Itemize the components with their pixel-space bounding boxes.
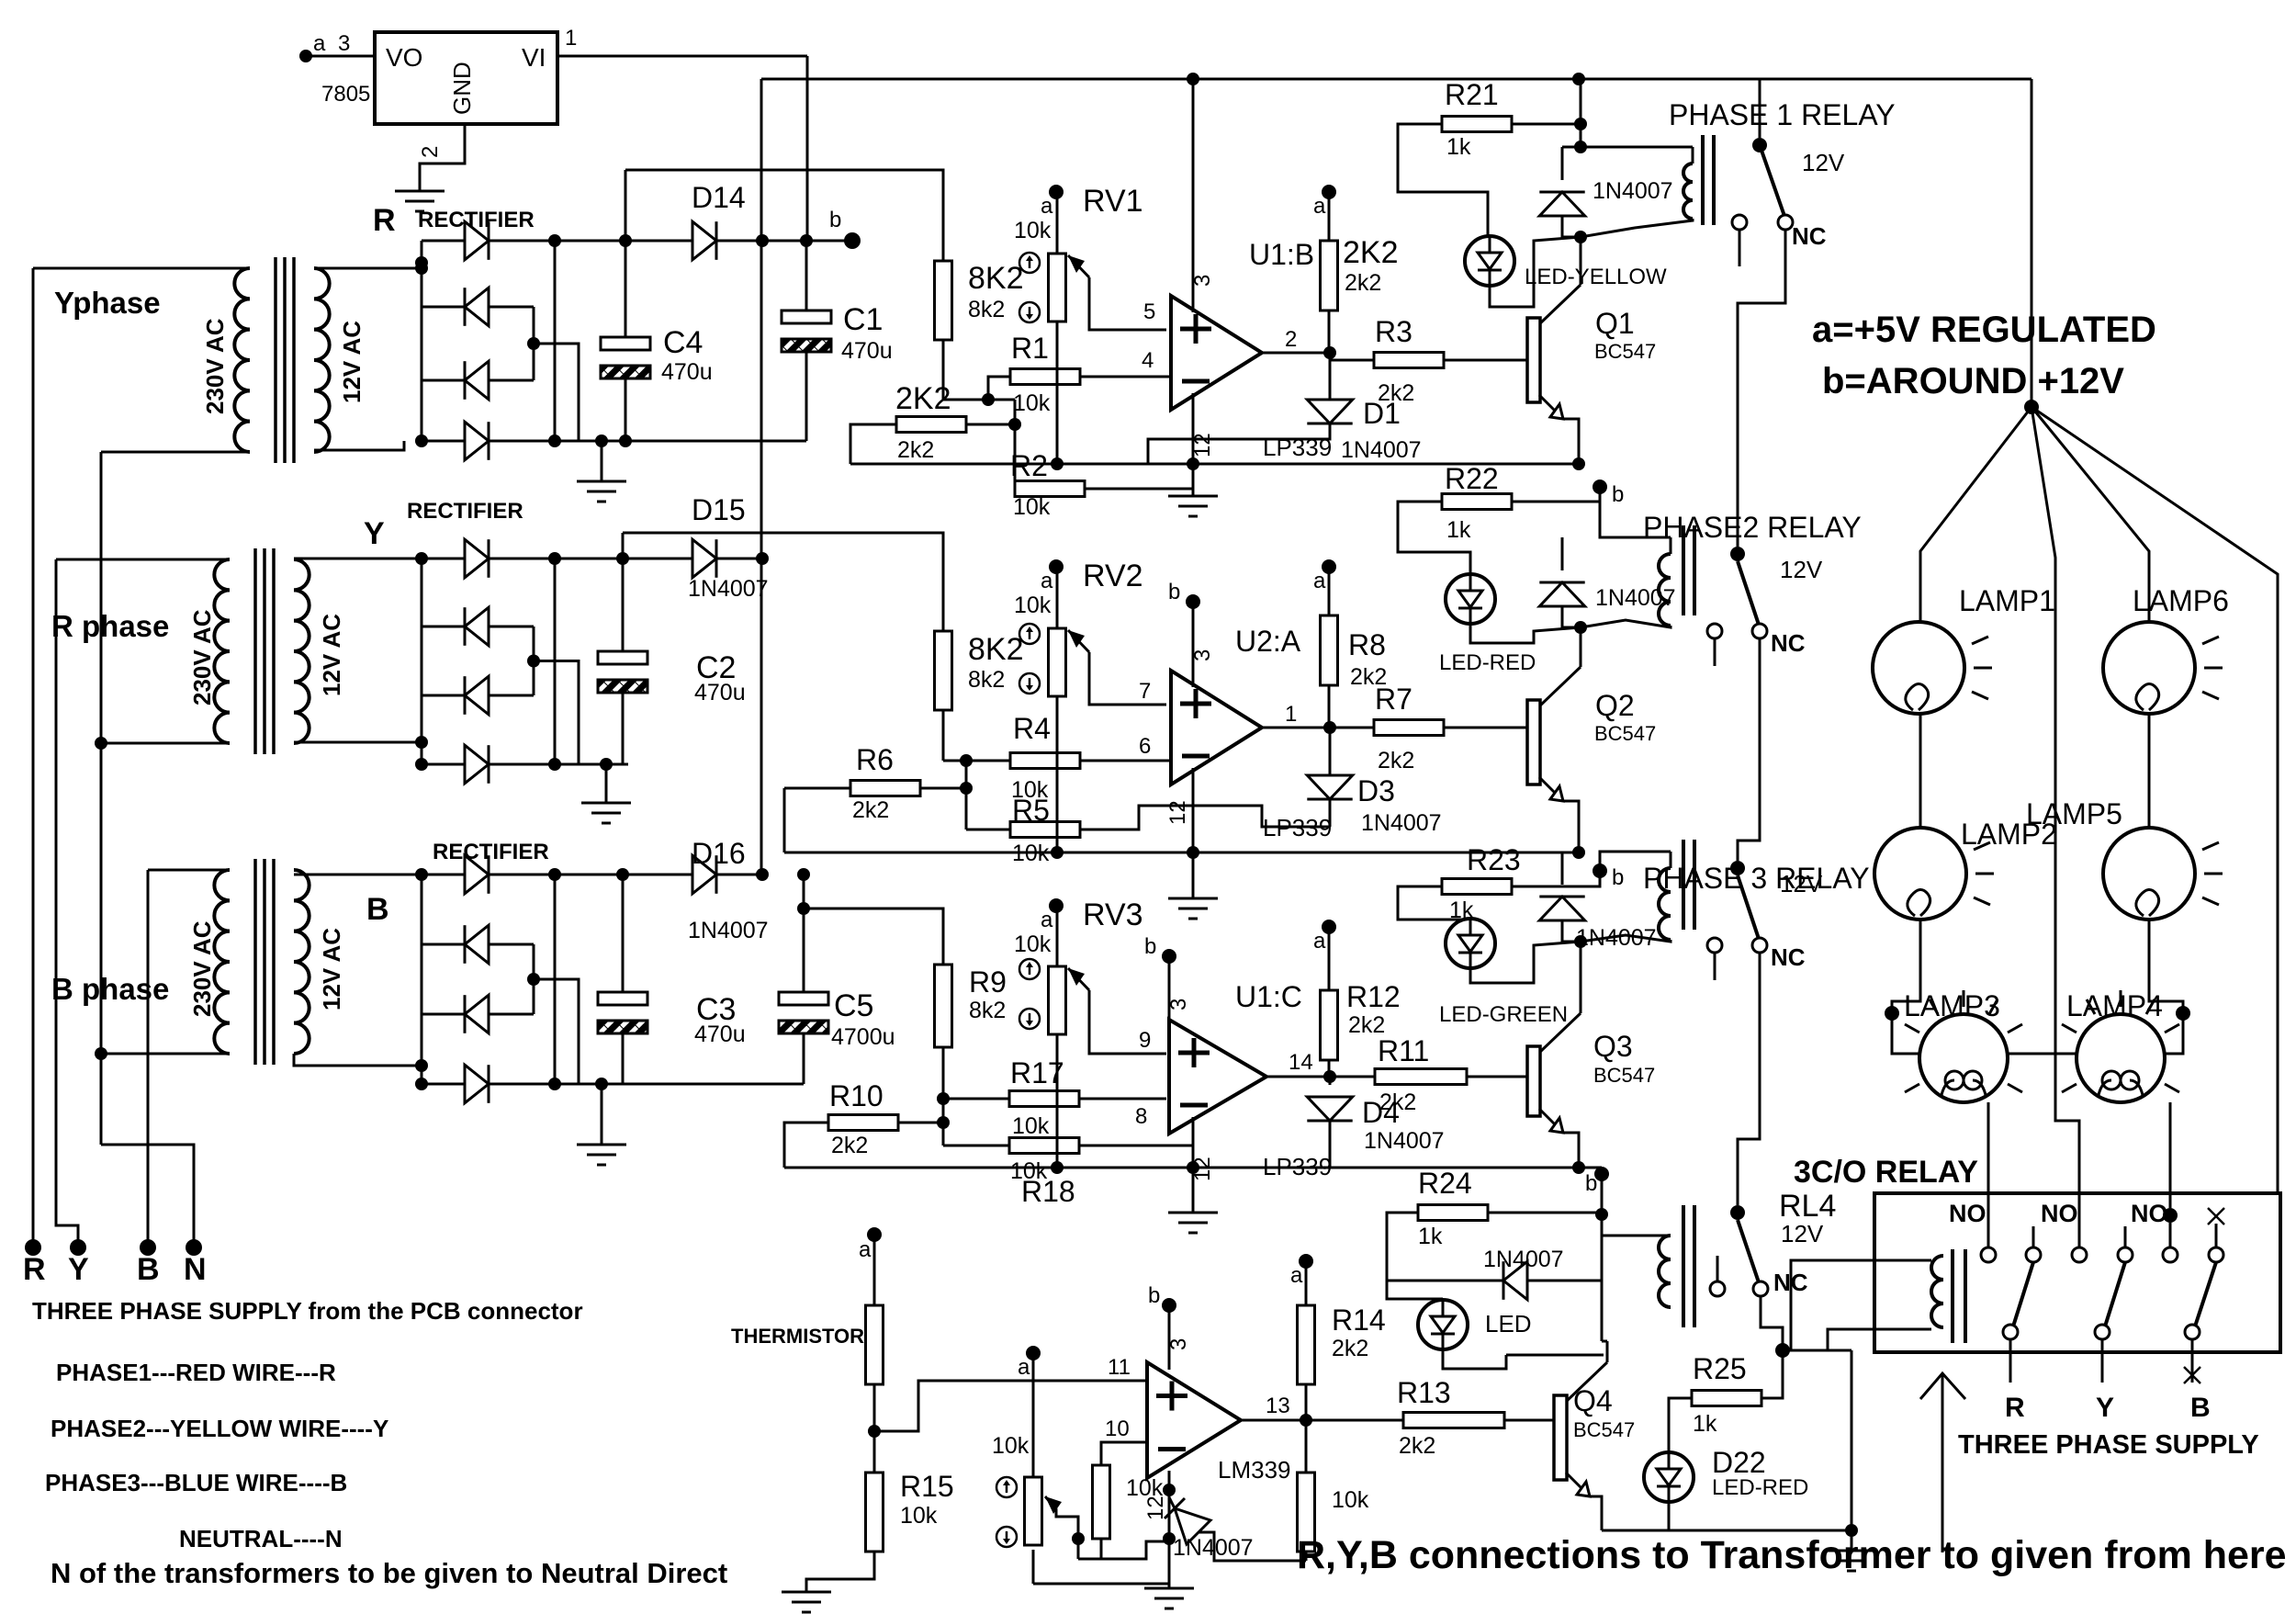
svg-text:BC547: BC547 [1573, 1418, 1635, 1441]
svg-text:R13: R13 [1397, 1376, 1451, 1409]
svg-text:U2:A: U2:A [1235, 625, 1301, 658]
svg-text:LED-RED: LED-RED [1712, 1475, 1808, 1500]
svg-text:10k: 10k [1013, 494, 1051, 520]
svg-text:Q4: Q4 [1573, 1384, 1613, 1417]
svg-text:C1: C1 [843, 302, 883, 337]
svg-text:470u: 470u [841, 338, 893, 364]
svg-text:PHASE 1 RELAY: PHASE 1 RELAY [1669, 98, 1896, 131]
svg-text:LAMP6: LAMP6 [2133, 584, 2229, 617]
svg-text:Q1: Q1 [1595, 307, 1635, 340]
svg-text:RV1: RV1 [1083, 184, 1143, 219]
svg-text:R4: R4 [1013, 712, 1051, 745]
svg-text:R15: R15 [900, 1470, 954, 1503]
svg-text:PHASE2 RELAY: PHASE2 RELAY [1643, 511, 1862, 544]
svg-text:5: 5 [1143, 299, 1155, 324]
svg-text:R11: R11 [1378, 1034, 1429, 1067]
svg-text:14: 14 [1289, 1050, 1313, 1075]
svg-text:12V AC: 12V AC [318, 614, 345, 696]
svg-text:230V AC: 230V AC [201, 318, 229, 414]
svg-text:12V: 12V [1780, 870, 1823, 897]
svg-text:R21: R21 [1445, 78, 1499, 111]
svg-text:D22: D22 [1712, 1446, 1766, 1479]
svg-text:8k2: 8k2 [968, 297, 1005, 322]
svg-text:13: 13 [1266, 1394, 1290, 1418]
svg-text:Y: Y [68, 1252, 89, 1287]
svg-text:LM339: LM339 [1218, 1456, 1291, 1484]
svg-text:C5: C5 [834, 988, 873, 1023]
svg-text:2k2: 2k2 [1399, 1433, 1435, 1459]
svg-text:4: 4 [1142, 348, 1154, 373]
svg-text:LED-GREEN: LED-GREEN [1439, 1002, 1568, 1027]
svg-text:D14: D14 [692, 181, 746, 214]
svg-text:12: 12 [1165, 800, 1190, 825]
svg-text:3: 3 [1166, 1338, 1191, 1350]
svg-text:R12: R12 [1346, 980, 1401, 1013]
svg-text:2k2: 2k2 [852, 797, 889, 823]
svg-text:R3: R3 [1375, 315, 1412, 348]
svg-text:NC: NC [1771, 629, 1806, 657]
svg-text:8K2: 8K2 [968, 261, 1024, 296]
svg-text:RV3: RV3 [1083, 897, 1143, 932]
svg-text:RECTIFIER: RECTIFIER [433, 840, 549, 864]
svg-text:a: a [859, 1237, 872, 1262]
svg-text:PHASE3---BLUE WIRE----B: PHASE3---BLUE WIRE----B [45, 1469, 347, 1496]
svg-text:THREE PHASE SUPPLY from the PC: THREE PHASE SUPPLY from the PCB connecto… [32, 1297, 583, 1325]
svg-text:2k2: 2k2 [1378, 748, 1414, 773]
svg-text:3: 3 [1166, 999, 1191, 1010]
svg-text:b: b [1168, 580, 1180, 604]
svg-text:b: b [829, 208, 841, 232]
svg-text:R phase: R phase [51, 609, 169, 643]
svg-text:a=+5V REGULATED: a=+5V REGULATED [1812, 310, 2156, 350]
svg-text:8K2: 8K2 [968, 632, 1024, 667]
svg-text:R2: R2 [1010, 449, 1048, 482]
svg-text:2k2: 2k2 [1379, 1089, 1416, 1115]
svg-text:1N4007: 1N4007 [1361, 810, 1442, 836]
svg-text:12V: 12V [1780, 556, 1823, 583]
svg-text:D15: D15 [692, 493, 746, 526]
svg-text:R1: R1 [1011, 332, 1049, 365]
svg-text:U1:B: U1:B [1249, 238, 1314, 271]
svg-text:1k: 1k [1446, 517, 1471, 543]
svg-text:10k: 10k [1012, 1113, 1050, 1139]
svg-text:R22: R22 [1445, 462, 1499, 495]
svg-text:RECTIFIER: RECTIFIER [407, 499, 523, 524]
svg-text:a: a [1041, 908, 1053, 932]
svg-text:2K2: 2K2 [1343, 235, 1399, 270]
svg-text:1k: 1k [1446, 134, 1471, 160]
svg-text:7805: 7805 [321, 82, 370, 107]
svg-text:NC: NC [1771, 943, 1806, 971]
svg-text:10k: 10k [1014, 931, 1052, 957]
svg-text:LED-YELLOW: LED-YELLOW [1525, 265, 1667, 289]
svg-text:R18: R18 [1021, 1175, 1075, 1208]
svg-text:PHASE1---RED WIRE---R: PHASE1---RED WIRE---R [56, 1359, 336, 1386]
svg-text:LAMP3: LAMP3 [1904, 989, 2000, 1022]
svg-text:Yphase: Yphase [54, 286, 161, 320]
svg-text:230V AC: 230V AC [188, 609, 216, 705]
svg-text:10k: 10k [900, 1503, 938, 1529]
svg-text:4700u: 4700u [831, 1024, 895, 1050]
svg-text:6: 6 [1139, 734, 1151, 759]
svg-text:10k: 10k [1332, 1487, 1369, 1513]
svg-text:PHASE2---YELLOW WIRE----Y: PHASE2---YELLOW WIRE----Y [51, 1415, 388, 1442]
svg-text:2K2: 2K2 [895, 381, 951, 416]
svg-text:R: R [23, 1252, 46, 1287]
svg-text:12V: 12V [1781, 1220, 1824, 1247]
svg-text:R6: R6 [856, 743, 894, 776]
svg-text:B: B [2190, 1393, 2211, 1423]
svg-text:N of the transformers to be gi: N of the transformers to be given to Neu… [51, 1557, 727, 1589]
svg-text:230V AC: 230V AC [188, 920, 216, 1017]
svg-text:BC547: BC547 [1594, 340, 1656, 363]
svg-text:1: 1 [565, 26, 577, 51]
svg-text:VO: VO [386, 43, 422, 72]
svg-text:NO: NO [1949, 1200, 1986, 1227]
svg-text:R10: R10 [829, 1079, 884, 1112]
svg-text:3: 3 [1190, 649, 1215, 661]
svg-text:12V AC: 12V AC [338, 321, 366, 403]
svg-text:2k2: 2k2 [1345, 270, 1381, 296]
svg-text:470u: 470u [694, 680, 746, 705]
svg-text:R25: R25 [1693, 1352, 1747, 1385]
svg-text:RL4: RL4 [1779, 1189, 1836, 1224]
svg-text:1k: 1k [1418, 1224, 1443, 1249]
svg-text:b: b [1144, 934, 1156, 959]
svg-text:1N4007: 1N4007 [1173, 1535, 1254, 1561]
svg-text:U1:C: U1:C [1235, 980, 1302, 1013]
svg-text:R,Y,B connections to Transform: R,Y,B connections to Transformer to give… [1297, 1533, 2287, 1577]
svg-text:10k: 10k [1014, 218, 1052, 243]
svg-text:LED-RED: LED-RED [1439, 650, 1536, 675]
svg-text:LAMP4: LAMP4 [2066, 989, 2163, 1022]
svg-text:R14: R14 [1332, 1304, 1386, 1337]
svg-text:10k: 10k [1013, 390, 1051, 416]
svg-text:470u: 470u [694, 1021, 746, 1047]
svg-text:Y: Y [364, 516, 385, 551]
svg-text:1N4007: 1N4007 [688, 918, 769, 943]
svg-text:1: 1 [1285, 702, 1297, 727]
svg-text:R: R [2005, 1393, 2025, 1423]
svg-text:3: 3 [1190, 275, 1215, 287]
svg-text:8k2: 8k2 [968, 667, 1005, 693]
svg-text:LAMP5: LAMP5 [2026, 797, 2122, 830]
svg-text:Q2: Q2 [1595, 689, 1635, 722]
svg-text:1N4007: 1N4007 [1341, 437, 1422, 463]
svg-text:BC547: BC547 [1594, 722, 1656, 745]
svg-text:a: a [1313, 929, 1326, 954]
svg-text:R17: R17 [1010, 1056, 1064, 1089]
svg-text:VI: VI [522, 43, 546, 72]
svg-text:b: b [1612, 482, 1624, 507]
svg-text:B phase: B phase [51, 972, 169, 1006]
svg-text:NO: NO [2131, 1200, 2168, 1227]
svg-text:Y: Y [2096, 1393, 2114, 1423]
svg-text:C4: C4 [663, 325, 703, 360]
svg-text:a: a [1313, 569, 1326, 593]
svg-text:a: a [1290, 1263, 1303, 1288]
svg-text:GND: GND [448, 62, 476, 115]
svg-text:3: 3 [338, 31, 350, 56]
svg-text:2k2: 2k2 [831, 1133, 868, 1158]
svg-text:Q3: Q3 [1593, 1030, 1633, 1063]
svg-text:1k: 1k [1693, 1411, 1717, 1437]
svg-text:10k: 10k [992, 1433, 1030, 1459]
svg-text:12V AC: 12V AC [318, 928, 345, 1010]
svg-text:11: 11 [1108, 1355, 1131, 1380]
svg-text:R: R [373, 203, 396, 238]
svg-text:1N4007: 1N4007 [1364, 1128, 1445, 1154]
svg-text:1N4007: 1N4007 [688, 576, 769, 602]
svg-text:7: 7 [1139, 679, 1151, 704]
svg-text:a: a [1041, 194, 1053, 219]
svg-text:1N4007: 1N4007 [1483, 1247, 1564, 1272]
svg-text:NEUTRAL----N: NEUTRAL----N [179, 1525, 343, 1552]
svg-text:a: a [1041, 569, 1053, 593]
svg-text:b: b [1612, 865, 1624, 890]
svg-text:RV2: RV2 [1083, 559, 1143, 593]
svg-text:1N4007: 1N4007 [1593, 178, 1673, 204]
svg-text:R8: R8 [1348, 628, 1386, 661]
svg-text:R7: R7 [1375, 683, 1412, 716]
svg-text:PHASE 3 RELAY: PHASE 3 RELAY [1643, 862, 1870, 895]
svg-text:a: a [1313, 194, 1326, 219]
svg-text:BC547: BC547 [1593, 1064, 1655, 1087]
svg-text:D3: D3 [1357, 774, 1395, 807]
svg-text:b: b [1585, 1171, 1597, 1196]
svg-text:2: 2 [1285, 327, 1297, 352]
svg-text:a: a [313, 31, 326, 56]
svg-text:D16: D16 [692, 837, 746, 870]
svg-text:b=AROUND +12V: b=AROUND +12V [1822, 361, 2124, 401]
svg-text:R24: R24 [1418, 1167, 1472, 1200]
svg-text:LAMP1: LAMP1 [1959, 584, 2055, 617]
svg-text:3C/O RELAY: 3C/O RELAY [1794, 1155, 1978, 1190]
svg-text:10: 10 [1105, 1416, 1130, 1441]
svg-text:THREE PHASE SUPPLY: THREE PHASE SUPPLY [1958, 1430, 2259, 1460]
svg-text:b: b [1148, 1283, 1160, 1308]
svg-text:2k2: 2k2 [897, 437, 934, 463]
svg-text:9: 9 [1139, 1028, 1151, 1053]
svg-text:a: a [1018, 1355, 1030, 1380]
svg-text:THERMISTOR: THERMISTOR [731, 1325, 864, 1348]
svg-text:470u: 470u [661, 359, 713, 385]
svg-text:N: N [184, 1252, 207, 1287]
svg-text:LED: LED [1485, 1310, 1532, 1337]
svg-text:12: 12 [1190, 433, 1215, 457]
svg-text:NO: NO [2041, 1200, 2078, 1227]
svg-text:B: B [137, 1252, 160, 1287]
svg-text:2k2: 2k2 [1378, 380, 1414, 406]
svg-text:10k: 10k [1014, 593, 1052, 618]
svg-text:R5: R5 [1012, 794, 1050, 827]
svg-text:B: B [366, 892, 389, 927]
svg-text:NC: NC [1792, 222, 1827, 250]
svg-text:12V: 12V [1802, 149, 1845, 176]
svg-text:2k2: 2k2 [1332, 1336, 1368, 1361]
svg-text:RECTIFIER: RECTIFIER [418, 208, 535, 232]
svg-text:8: 8 [1135, 1104, 1147, 1129]
svg-text:LP339: LP339 [1263, 814, 1332, 841]
svg-text:2: 2 [418, 146, 443, 158]
svg-text:8k2: 8k2 [969, 998, 1006, 1023]
svg-text:R23: R23 [1467, 843, 1521, 876]
svg-text:R9: R9 [969, 965, 1007, 999]
